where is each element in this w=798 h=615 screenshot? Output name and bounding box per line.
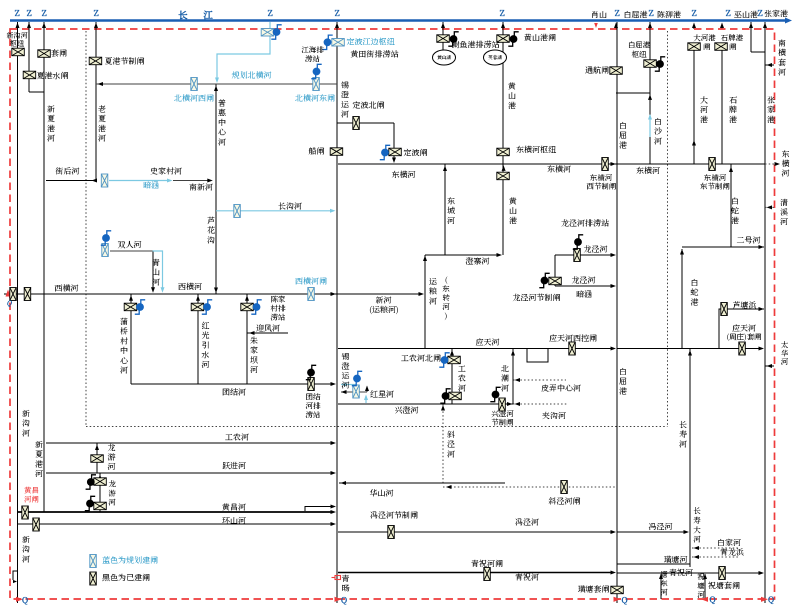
- svg-text:Q: Q: [620, 595, 627, 606]
- svg-text:长: 长: [178, 8, 188, 22]
- svg-text:青祝河: 青祝河: [515, 572, 539, 583]
- svg-text:通航闸: 通航闸: [585, 65, 610, 76]
- svg-text:黄山港闸: 黄山港闸: [523, 33, 557, 44]
- svg-text:巫山港: 巫山港: [733, 10, 758, 21]
- svg-text:(周庄)套闸: (周庄)套闸: [726, 332, 762, 343]
- svg-text:港: 港: [509, 215, 517, 226]
- svg-text:芙蓉湖: 芙蓉湖: [487, 54, 502, 61]
- svg-text:暗涵: 暗涵: [143, 180, 159, 191]
- svg-text:南新河: 南新河: [189, 182, 213, 193]
- svg-text:西横河闸: 西横河闸: [295, 276, 328, 287]
- svg-text:河闸: 河闸: [24, 494, 39, 505]
- svg-text:应天河西控闸: 应天河西控闸: [548, 333, 598, 344]
- svg-text:迎风河: 迎风河: [256, 323, 280, 334]
- svg-text:斜泾河闸: 斜泾河闸: [549, 496, 582, 507]
- svg-text:黑色为已建闸: 黑色为已建闸: [101, 573, 151, 584]
- svg-text:河: 河: [152, 277, 160, 288]
- svg-text:陈泖港: 陈泖港: [657, 10, 681, 21]
- svg-text:闸: 闸: [703, 42, 711, 53]
- svg-text:枢纽: 枢纽: [10, 39, 25, 49]
- svg-text:祝塘套闸: 祝塘套闸: [707, 581, 741, 592]
- svg-text:闸: 闸: [729, 42, 737, 53]
- svg-text:套闸: 套闸: [50, 48, 68, 59]
- svg-text:河: 河: [501, 383, 509, 394]
- svg-text:二号河: 二号河: [737, 235, 761, 246]
- svg-text:Q: Q: [708, 595, 715, 606]
- svg-text:河: 河: [447, 449, 455, 460]
- svg-text:长沟河: 长沟河: [278, 201, 302, 212]
- svg-text:河: 河: [780, 217, 788, 228]
- svg-text:河: 河: [218, 137, 226, 148]
- svg-text:河: 河: [120, 365, 128, 376]
- svg-text:芦塘浜: 芦塘浜: [733, 300, 757, 311]
- svg-text:黄田街排涝站: 黄田街排涝站: [350, 49, 400, 60]
- svg-text:夏港节制闸: 夏港节制闸: [105, 56, 146, 67]
- svg-text:冯泾河节制闸: 冯泾河节制闸: [370, 510, 419, 521]
- svg-text:冯泾河: 冯泾河: [515, 517, 539, 528]
- svg-text:西节制闸: 西节制闸: [587, 181, 617, 192]
- svg-text:龙泾河排涝站: 龙泾河排涝站: [561, 218, 610, 229]
- svg-text:河: 河: [22, 554, 30, 565]
- svg-text:璜塘套闸: 璜塘套闸: [578, 584, 611, 595]
- svg-text:河: 河: [342, 380, 350, 391]
- svg-text:东横河: 东横河: [392, 170, 416, 181]
- svg-text:Q: Q: [340, 595, 347, 606]
- svg-text:港: 港: [729, 114, 737, 125]
- svg-text:河: 河: [202, 359, 210, 370]
- svg-text:北横河西闸: 北横河西闸: [173, 93, 215, 104]
- svg-text:枢纽: 枢纽: [632, 49, 647, 60]
- svg-text:白屈港: 白屈港: [624, 10, 648, 21]
- svg-text:定波江边枢纽: 定波江边枢纽: [347, 37, 396, 48]
- svg-text:港: 港: [619, 140, 627, 151]
- svg-text:华山河: 华山河: [370, 488, 394, 499]
- svg-text:Q: Q: [21, 595, 28, 606]
- svg-text:河: 河: [22, 428, 30, 439]
- svg-text:定波闸: 定波闸: [404, 148, 429, 159]
- svg-text:港: 港: [691, 297, 699, 308]
- svg-text:黄山湖: 黄山湖: [437, 54, 451, 61]
- svg-text:河: 河: [429, 296, 437, 307]
- svg-text:北横河东闸: 北横河东闸: [294, 93, 336, 104]
- svg-text:Q: Q: [767, 595, 774, 606]
- svg-text:河: 河: [250, 365, 258, 376]
- svg-text:东横河: 东横河: [636, 166, 660, 177]
- svg-text:河: 河: [47, 133, 55, 144]
- svg-text:节制闸: 节制闸: [491, 417, 514, 428]
- svg-text:东节制闸: 东节制闸: [699, 181, 730, 192]
- svg-text:蓝色为规划建闸: 蓝色为规划建闸: [102, 555, 159, 566]
- svg-text:河: 河: [98, 133, 106, 144]
- svg-text:河: 河: [693, 534, 701, 545]
- svg-text:沟: 沟: [207, 235, 215, 246]
- svg-text:跃进河: 跃进河: [222, 461, 246, 472]
- svg-text:河: 河: [697, 590, 705, 601]
- svg-text:河: 河: [108, 461, 116, 472]
- svg-text:张家港: 张家港: [764, 9, 788, 20]
- svg-text:): ): [444, 311, 448, 322]
- svg-text:规划北横河: 规划北横河: [232, 70, 272, 81]
- svg-text:东横河: 东横河: [547, 164, 571, 175]
- svg-text:西横河: 西横河: [55, 283, 79, 294]
- svg-text:旸: 旸: [342, 583, 351, 594]
- svg-text:龙泾河: 龙泾河: [572, 275, 596, 286]
- svg-text:(运粮河): (运粮河): [369, 305, 399, 316]
- svg-text:东横河枢纽: 东横河枢纽: [516, 145, 557, 156]
- svg-text:街后河: 街后河: [56, 166, 80, 177]
- svg-text:江: 江: [202, 8, 213, 22]
- svg-text:船闸: 船闸: [308, 146, 326, 157]
- svg-text:兴澄河: 兴澄河: [395, 405, 419, 416]
- svg-text:夏港水闸: 夏港水闸: [37, 71, 70, 82]
- svg-text:河: 河: [654, 136, 662, 147]
- svg-text:鲥鱼港排涝站: 鲥鱼港排涝站: [452, 40, 501, 51]
- svg-text:双人河: 双人河: [118, 240, 142, 251]
- svg-text:河: 河: [458, 383, 466, 394]
- svg-text:港: 港: [508, 100, 516, 111]
- svg-text:红星河: 红星河: [370, 389, 394, 400]
- svg-text:河: 河: [782, 168, 790, 179]
- svg-text:澄寨河: 澄寨河: [466, 256, 490, 267]
- svg-text:河: 河: [781, 357, 789, 368]
- svg-text:河: 河: [341, 109, 349, 120]
- svg-text:龙泾河节制闸: 龙泾河节制闸: [513, 293, 562, 304]
- svg-text:港: 港: [619, 386, 627, 397]
- svg-text:应天河: 应天河: [475, 337, 500, 348]
- svg-text:肖山: 肖山: [591, 10, 607, 21]
- svg-text:黄昌河: 黄昌河: [221, 502, 246, 513]
- svg-text:港: 港: [767, 114, 775, 125]
- svg-text:皮弄中心河: 皮弄中心河: [540, 383, 581, 394]
- svg-text:龙泾河: 龙泾河: [584, 244, 608, 255]
- svg-text:河: 河: [447, 215, 455, 226]
- svg-text:青祝河: 青祝河: [669, 568, 693, 579]
- svg-text:河: 河: [660, 587, 668, 598]
- svg-text:环山河: 环山河: [222, 516, 246, 527]
- svg-text:璜塘河: 璜塘河: [664, 555, 688, 566]
- svg-text:涝站: 涝站: [304, 54, 320, 65]
- svg-text:港: 港: [700, 114, 708, 125]
- svg-text:青祝河闸: 青祝河闸: [471, 559, 504, 570]
- svg-text:史家村河: 史家村河: [150, 166, 182, 177]
- svg-text:工农河: 工农河: [224, 432, 249, 443]
- svg-text:河: 河: [35, 469, 43, 480]
- svg-text:青龙浜: 青龙浜: [720, 547, 744, 558]
- svg-text:工农河北闸: 工农河北闸: [400, 353, 442, 364]
- svg-text:夹沟河: 夹沟河: [541, 411, 566, 422]
- svg-text:河: 河: [679, 439, 687, 450]
- svg-text:暗涵: 暗涵: [576, 289, 592, 300]
- svg-text:涝站: 涝站: [305, 410, 321, 421]
- svg-text:港: 港: [731, 215, 739, 226]
- svg-text:河: 河: [778, 67, 786, 78]
- svg-text:定波北闸: 定波北闸: [353, 100, 386, 111]
- svg-text:冯泾河: 冯泾河: [649, 522, 673, 533]
- svg-text:涝站: 涝站: [270, 312, 286, 323]
- svg-text:河: 河: [108, 497, 116, 508]
- svg-text:西横河: 西横河: [178, 282, 202, 293]
- svg-text:团结河: 团结河: [222, 387, 246, 398]
